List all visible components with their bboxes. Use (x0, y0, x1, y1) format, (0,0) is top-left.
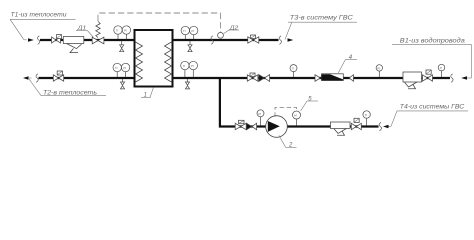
drain valve return-left (120, 79, 124, 89)
coil left (136, 42, 143, 82)
break T3 mid (211, 36, 213, 45)
thermometer TI T4 (363, 111, 370, 126)
svg-text:В1-из водопровода: В1-из водопровода (400, 37, 465, 45)
sensor pump control (293, 111, 301, 126)
pipe B1 cold water (173, 77, 451, 79)
svg-text:ТI: ТI (116, 29, 119, 33)
pressure gauge TI mid (290, 65, 297, 77)
sensor D2 (218, 32, 224, 38)
label 4 (338, 59, 357, 73)
label 2 (279, 135, 297, 147)
pressure gauge PI B1 (376, 65, 382, 77)
flow arrow B1 (461, 76, 467, 80)
strainer B1 (403, 72, 422, 89)
svg-text:РI: РI (124, 29, 127, 33)
break T1 (37, 36, 39, 45)
gate valve T4 (351, 118, 361, 129)
svg-text:ТI: ТI (183, 64, 186, 68)
drain valve top-right (188, 41, 192, 52)
strainer pipe T1 (63, 37, 84, 53)
control valve D1 (92, 21, 104, 43)
svg-text:РI: РI (191, 29, 194, 33)
pipe T2 return (39, 77, 135, 79)
gate valve pipe T1 (52, 35, 62, 43)
label 5 (301, 101, 318, 111)
svg-text:Д1: Д1 (77, 26, 87, 32)
thermometer TI B1 (438, 64, 445, 77)
break T4 (379, 122, 381, 131)
svg-text:ТI: ТI (364, 113, 367, 117)
pump impulse dashed (275, 107, 297, 116)
svg-text:ТI: ТI (291, 67, 294, 71)
strainer T4 (331, 122, 351, 135)
gate valve T3 (248, 35, 259, 43)
svg-text:ТI: ТI (439, 66, 442, 70)
pressure gauge PI pump suction (257, 110, 264, 126)
label D2 (224, 30, 239, 34)
gate valve pipe T2 (53, 71, 63, 81)
break B1 (451, 74, 453, 83)
pump 2 (266, 116, 288, 138)
svg-text:ТI: ТI (183, 29, 186, 33)
svg-text:РI: РI (258, 112, 261, 116)
gate valve B1 inlet (423, 70, 433, 81)
water meter 4 (315, 74, 354, 82)
pipe T3 DHW out (173, 39, 279, 41)
instrument pair TI/PI bottom-right (181, 61, 198, 77)
svg-text:Т4-из системы ГВС: Т4-из системы ГВС (400, 104, 465, 111)
svg-text:Т1-из теплосети: Т1-из теплосети (11, 12, 67, 19)
gate valve B1 mid (247, 73, 258, 81)
gate valve circulation (235, 120, 246, 129)
check valve circulation (246, 123, 256, 130)
heat exchanger U1 (135, 30, 173, 87)
svg-text:Т3-в систему ГВС: Т3-в систему ГВС (290, 15, 353, 22)
svg-text:РI: РI (191, 64, 194, 68)
drain valve top-left (120, 41, 124, 52)
coil right (165, 42, 172, 82)
flow arrow T4 (383, 125, 389, 129)
svg-text:2: 2 (288, 142, 293, 148)
svg-text:РI: РI (377, 66, 380, 70)
svg-text:Д2: Д2 (229, 25, 240, 31)
instrument pair TI/PI top-right (181, 26, 198, 39)
instrument pair TI/PI top-left (114, 26, 131, 39)
svg-text:ТI: ТI (115, 66, 118, 70)
pipe T1 supply (40, 39, 135, 41)
instrument pair TI/PI return-left (113, 63, 130, 77)
flow arrow T2 (23, 76, 29, 80)
check valve B1 (259, 75, 270, 82)
svg-text:1: 1 (144, 92, 147, 98)
svg-text:НI: НI (294, 114, 297, 118)
pipe T4 circulation riser (220, 77, 379, 127)
impulse line dashed D1-D2 (98, 13, 220, 32)
flow arrow T3 (288, 38, 294, 42)
drain valve bottom-right (185, 79, 189, 89)
label 1 (141, 87, 154, 97)
break T3 end (279, 36, 281, 45)
label D1 (76, 30, 93, 37)
svg-text:РI: РI (123, 66, 126, 70)
break T2 (36, 74, 38, 83)
flow arrow T1 (28, 38, 34, 42)
